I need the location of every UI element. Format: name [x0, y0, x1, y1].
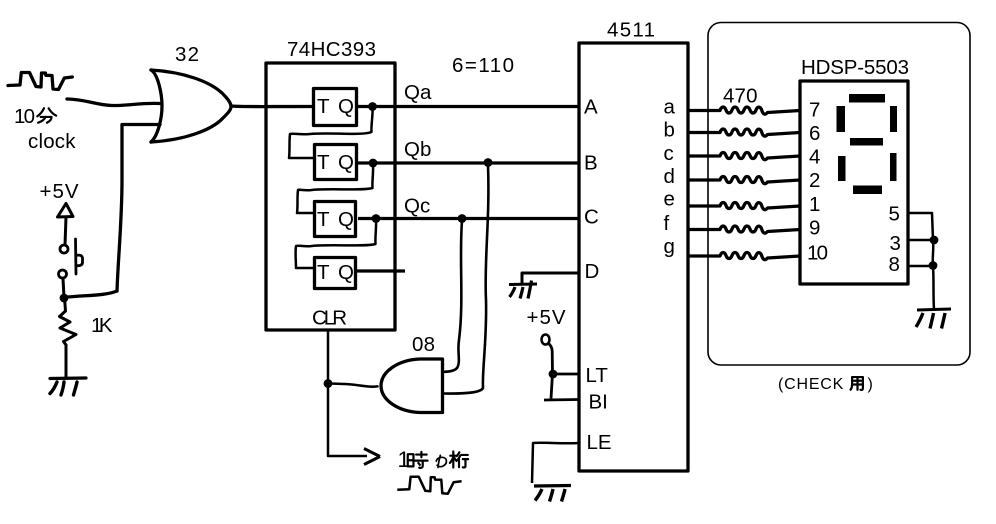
svg-text:7: 7	[809, 99, 820, 122]
svg-text:08: 08	[412, 333, 435, 356]
svg-text:C: C	[584, 206, 599, 229]
svg-text:8: 8	[889, 253, 900, 276]
svg-text:c: c	[664, 142, 674, 165]
svg-text:74HC393: 74HC393	[287, 38, 376, 61]
svg-text:BI: BI	[589, 391, 608, 414]
svg-text:10: 10	[14, 105, 35, 128]
svg-text:Q: Q	[338, 95, 354, 118]
svg-text:LE: LE	[587, 431, 612, 454]
svg-text:470: 470	[723, 85, 758, 108]
svg-text:6: 6	[809, 122, 820, 145]
svg-text:Q: Q	[338, 208, 354, 231]
svg-text:g: g	[664, 235, 675, 258]
svg-text:6=110: 6=110	[452, 54, 514, 77]
svg-text:4511: 4511	[607, 19, 655, 42]
svg-text:5: 5	[889, 203, 900, 226]
svg-text:): )	[868, 376, 873, 393]
svg-text:T: T	[317, 261, 330, 284]
svg-text:Qb: Qb	[404, 138, 431, 161]
svg-text:a: a	[664, 95, 676, 118]
svg-text:clock: clock	[28, 130, 76, 153]
svg-text:B: B	[584, 152, 598, 175]
svg-text:LT: LT	[586, 364, 609, 387]
svg-text:Q: Q	[338, 151, 354, 174]
svg-text:CLR: CLR	[312, 307, 347, 330]
svg-text:2: 2	[809, 169, 820, 192]
svg-text:1K: 1K	[91, 314, 113, 337]
svg-text:+5V: +5V	[40, 180, 79, 203]
svg-text:32: 32	[175, 43, 199, 66]
svg-text:A: A	[584, 96, 598, 119]
svg-text:9: 9	[809, 217, 820, 240]
svg-text:HDSP-5503: HDSP-5503	[801, 56, 909, 79]
svg-text:1: 1	[809, 193, 820, 216]
svg-text:4: 4	[809, 146, 820, 169]
svg-text:(CHECK: (CHECK	[778, 376, 844, 393]
svg-text:d: d	[664, 165, 675, 188]
svg-text:D: D	[585, 260, 600, 283]
svg-text:T: T	[317, 151, 330, 174]
svg-text:+5V: +5V	[527, 306, 566, 329]
svg-text:Qc: Qc	[404, 195, 430, 218]
svg-text:f: f	[664, 212, 670, 235]
svg-text:e: e	[664, 188, 675, 211]
svg-text:Qa: Qa	[404, 81, 432, 104]
svg-text:T: T	[317, 95, 330, 118]
svg-text:b: b	[664, 119, 675, 142]
svg-text:10: 10	[807, 242, 828, 265]
svg-text:T: T	[317, 208, 330, 231]
svg-text:3: 3	[890, 232, 901, 255]
svg-text:Q: Q	[338, 261, 354, 284]
